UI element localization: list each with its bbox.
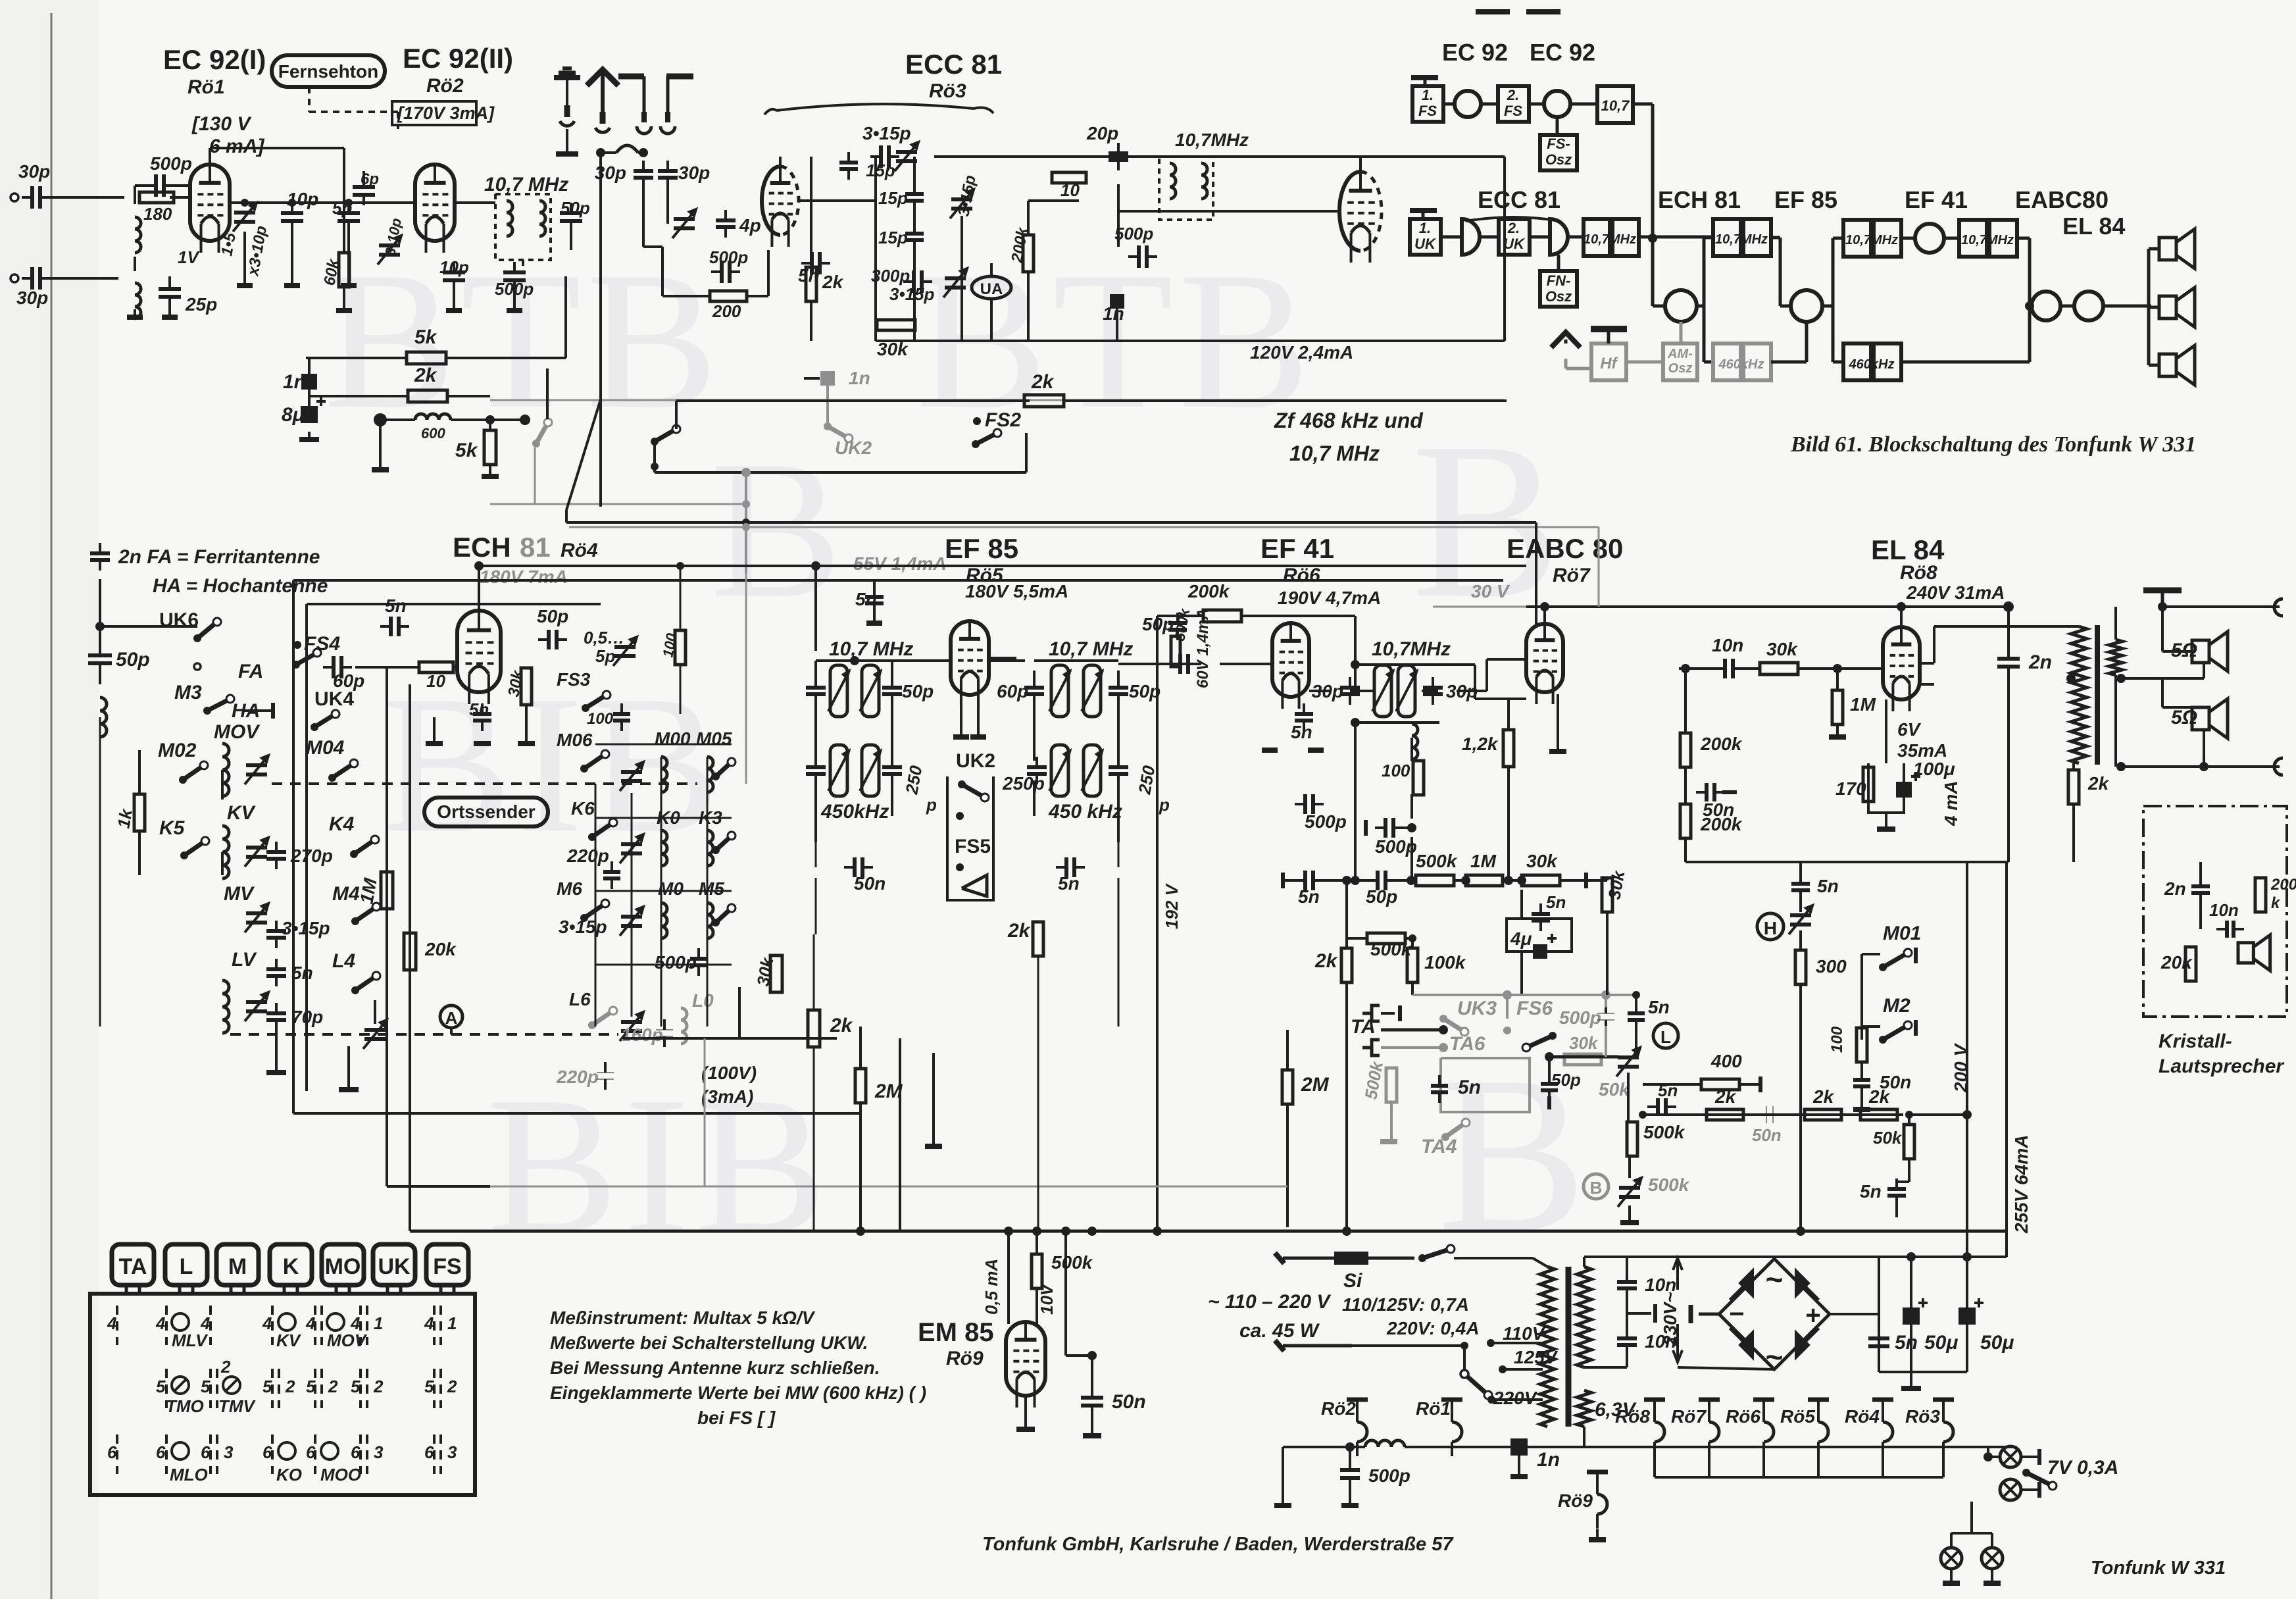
dial lamps switch [2026, 1473, 2053, 1486]
stub 5p EC92 [347, 228, 350, 283]
capacitor 50p left [88, 653, 112, 657]
svg-text:MV: MV [224, 883, 255, 905]
resistor 200k kristall [2255, 878, 2266, 912]
ECC81 osc wires [810, 157, 812, 267]
transformer core [2095, 625, 2100, 765]
Fernsehton box [272, 55, 385, 87]
svg-text:30p: 30p [678, 163, 710, 183]
svg-text:Tonfunk GmbH, Karlsruhe / Bade: Tonfunk GmbH, Karlsruhe / Baden, Werders… [982, 1534, 1454, 1555]
wires antenna banks [100, 625, 197, 628]
block 10,7MHz EF41 in [1843, 220, 1871, 257]
svg-text:AM-: AM- [1667, 347, 1693, 361]
bridge diode NW [1740, 1271, 1753, 1296]
svg-text:1V: 1V [178, 247, 200, 267]
mains selector switch [1464, 1374, 1488, 1395]
svg-text:k: k [2271, 894, 2281, 912]
svg-text:ca. 45 W: ca. 45 W [1239, 1320, 1320, 1342]
ECH81 section box inner [305, 604, 308, 1091]
resistor 100 M [1857, 1028, 1867, 1062]
jack box FS [426, 1244, 468, 1285]
dial lamp 1 [2000, 1446, 2021, 1467]
svg-text:EC 92(I): EC 92(I) [163, 44, 266, 75]
svg-text:+: + [1805, 1301, 1820, 1330]
bus horizontal 1803 black part [387, 1185, 490, 1188]
chain risers [1586, 879, 1607, 882]
svg-text:3•15p: 3•15p [889, 284, 934, 304]
capacitor 70p [266, 1011, 286, 1015]
block speaker 1 [2159, 238, 2176, 260]
wire osc switch column [595, 784, 597, 1027]
Kristall-Lautsprecher box [2143, 806, 2287, 1017]
wire 50p down [570, 228, 572, 250]
capacitor 50n gray row [1766, 1106, 1767, 1123]
svg-text:TA: TA [1351, 1016, 1376, 1038]
wire 2k EF85 to bus [813, 934, 815, 1010]
svg-text:10,7 MHz: 10,7 MHz [1049, 638, 1133, 660]
wire 2k second bottom [1037, 956, 1039, 1231]
switch gray EC92 out [536, 422, 548, 444]
bus horizontal 1803 gray part [490, 1186, 1287, 1188]
capacitor 50p can A [882, 686, 902, 690]
vertical 200V wire [1966, 862, 1968, 1231]
wire trimmer column x960 [631, 793, 633, 1017]
svg-text:460kHz: 460kHz [1718, 357, 1764, 372]
PSU top bus [1774, 1256, 2007, 1258]
dial lamp 4 [1982, 1548, 2003, 1569]
svg-text:KV: KV [276, 1331, 302, 1350]
svg-text:5n: 5n [469, 699, 489, 719]
wire 100 osc riser [680, 566, 682, 630]
svg-text:4p: 4p [739, 215, 761, 236]
svg-text:10,7MHz: 10,7MHz [1372, 638, 1451, 660]
svg-text:192 V: 192 V [1162, 882, 1182, 929]
block 10,7 [1597, 86, 1633, 123]
svg-text:L6: L6 [569, 989, 591, 1009]
svg-text:FS5: FS5 [955, 836, 991, 857]
svg-text:B: B [1590, 1178, 1603, 1198]
TA line black [1381, 1028, 1443, 1032]
svg-text:2k: 2k [1314, 950, 1338, 972]
svg-text:5k: 5k [455, 440, 478, 461]
svg-text:HA = Hochantenne: HA = Hochantenne [153, 575, 328, 597]
svg-text:Osz: Osz [1545, 151, 1572, 168]
capacitor 270p [266, 850, 286, 854]
svg-text:p: p [926, 795, 937, 815]
bus corner left outer [386, 980, 388, 1186]
svg-text:LV: LV [232, 949, 258, 971]
capacitor 50p ECH out [547, 630, 551, 649]
osc group connector 4 [595, 964, 732, 966]
svg-text:400: 400 [1710, 1051, 1742, 1071]
wire bus 609 [675, 401, 678, 429]
resistor 500k AVC [1367, 933, 1405, 944]
svg-text:EABC 80: EABC 80 [1507, 533, 1623, 564]
input terminal upper [11, 193, 18, 201]
switch TA4 gray [1445, 1123, 1466, 1137]
speaker terminal T [2143, 588, 2182, 594]
svg-text:1M: 1M [1470, 851, 1497, 871]
top bus 860 [816, 565, 1526, 567]
svg-text:Osz: Osz [1668, 361, 1693, 376]
block ECH81 10,7MHz [1713, 219, 1741, 256]
svg-text:Rö9: Rö9 [946, 1348, 984, 1369]
block 2.FS [1498, 86, 1529, 122]
svg-text:2k: 2k [1007, 920, 1031, 942]
svg-text:50p: 50p [561, 198, 590, 218]
svg-text:2M: 2M [1301, 1074, 1330, 1096]
heater Ro3 [1933, 1398, 1954, 1402]
svg-text:K: K [283, 1254, 299, 1279]
svg-text:100: 100 [1828, 1026, 1846, 1053]
svg-text:3•15p: 3•15p [559, 917, 607, 937]
switch FS6 lever black [1526, 1036, 1553, 1048]
bus mid gray 801 [569, 526, 1599, 528]
coil LV group [222, 980, 229, 994]
electrolytic 50u 2 [1959, 1307, 1976, 1325]
ground terminal [372, 467, 389, 472]
svg-text:5: 5 [201, 1377, 211, 1396]
capacitor can A left [806, 686, 826, 690]
capacitor 2n anode [1997, 657, 2020, 661]
resistor 10 [1052, 172, 1086, 183]
block halfcircle a [1462, 219, 1480, 255]
svg-text:EM 85: EM 85 [918, 1318, 994, 1347]
svg-text:10: 10 [1061, 180, 1080, 200]
PSU bottom bus [1879, 1371, 1967, 1373]
choke PSU [1365, 1440, 1378, 1447]
tube EL84 anode wire dot [1897, 602, 1906, 611]
capacitor 30p EF41 out [1340, 686, 1360, 690]
svg-text:FS: FS [1418, 103, 1437, 119]
svg-text:100: 100 [1382, 761, 1410, 780]
svg-text:2n FA = Ferritantenne: 2n FA = Ferritantenne [118, 546, 320, 568]
svg-text:200: 200 [2270, 876, 2296, 894]
svg-text:KV: KV [227, 802, 257, 824]
osc box vertical [738, 987, 741, 1038]
svg-text:4: 4 [424, 1313, 434, 1333]
ECH81 plate riser dots [811, 561, 820, 571]
wire tuning cap [374, 1000, 376, 1024]
svg-text:100k: 100k [1424, 952, 1466, 973]
capacitor 50n M [1853, 1078, 1870, 1082]
input coil upper [135, 217, 141, 229]
svg-text:10,7MHz: 10,7MHz [1584, 232, 1636, 247]
svg-text:ECH: ECH [453, 532, 511, 563]
svg-text:180V 7mA: 180V 7mA [480, 567, 568, 587]
svg-text:EL 84: EL 84 [1871, 534, 1945, 565]
svg-text:6: 6 [424, 1442, 434, 1462]
block halfcircle b [1550, 219, 1568, 255]
gray bus down [745, 472, 747, 572]
svg-text:50p: 50p [1366, 886, 1397, 907]
capacitor 250p can B2 right [1109, 765, 1128, 769]
osc coil pair 1 [621, 770, 642, 774]
svg-text:A: A [445, 1008, 458, 1028]
svg-text:3: 3 [374, 1442, 384, 1462]
svg-text:6V: 6V [1897, 719, 1922, 740]
jack box legs [125, 1285, 128, 1294]
heater Ro6 [1753, 1398, 1774, 1402]
svg-text:500p: 500p [1114, 224, 1153, 243]
svg-text:50k: 50k [1873, 1128, 1903, 1148]
jack box M [216, 1244, 259, 1285]
svg-text:300: 300 [1816, 956, 1847, 977]
svg-text:Si: Si [1343, 1270, 1362, 1292]
svg-text:FA: FA [238, 661, 263, 682]
svg-text:4μ: 4μ [1510, 928, 1532, 949]
block speaker 2 [2159, 296, 2176, 318]
page mark top [1476, 9, 1510, 14]
svg-text:M01: M01 [1883, 923, 1921, 944]
svg-text:[130 V: [130 V [191, 113, 252, 135]
wire x1240 can A bottom [815, 842, 817, 867]
svg-text:4: 4 [155, 1313, 166, 1333]
capacitor 50n EM85 [1081, 1396, 1103, 1400]
svg-text:KO: KO [276, 1465, 302, 1485]
svg-text:M05: M05 [696, 728, 732, 749]
wire anode to primary [1920, 662, 1934, 665]
svg-text:5n: 5n [1291, 722, 1312, 742]
riser 4u box [1520, 890, 1523, 919]
svg-text:10n: 10n [1712, 635, 1743, 655]
svg-text:2.: 2. [1507, 87, 1519, 103]
svg-text:6: 6 [107, 1442, 117, 1462]
svg-text:TA6: TA6 [1449, 1033, 1485, 1055]
svg-text:FS-: FS- [1547, 136, 1570, 152]
svg-text:Rö1: Rö1 [187, 76, 225, 98]
resistor 2k fb [2068, 770, 2079, 804]
transformer heater winding [1577, 1390, 1591, 1427]
svg-text:5n: 5n [1546, 892, 1566, 912]
can risers to 860 [814, 566, 817, 651]
pot 500k gray B [1619, 1186, 1640, 1190]
bridge left terminal [1699, 1313, 1719, 1316]
block junction [1648, 234, 1657, 243]
osc gray vertical [704, 1038, 706, 1186]
tube EL84 [1883, 627, 1920, 699]
svg-text:1: 1 [374, 1313, 383, 1333]
svg-text:Rö2: Rö2 [1321, 1398, 1356, 1419]
svg-text:30k: 30k [1526, 851, 1558, 871]
wire osc column x1005 [661, 757, 662, 1027]
capacitor 25p [159, 287, 181, 291]
capacitor 5n H [1791, 882, 1810, 886]
diagonal wire left [566, 399, 601, 510]
svg-text:UK: UK [1503, 236, 1526, 252]
block Hf gray [1591, 343, 1626, 380]
wire M01 M2 [1860, 954, 1863, 1040]
resistor 100k [1407, 948, 1418, 982]
resistor 5k feedback [407, 352, 446, 364]
wire x152 extension [99, 717, 101, 1027]
ECH81 section box outer [292, 580, 295, 1113]
resistor 170 [1863, 767, 1874, 801]
dipole terminal 1 [618, 74, 644, 80]
svg-text:6: 6 [262, 1442, 272, 1462]
svg-text:L4: L4 [332, 950, 355, 972]
block wire 10,7 down [1633, 103, 1653, 106]
tube EABC80 [1526, 624, 1563, 692]
wire osc column x1075 [707, 757, 709, 1027]
svg-text:Tonfunk W 331: Tonfunk W 331 [2091, 1558, 2226, 1579]
tube EF41 [1272, 623, 1309, 697]
cap 5n 55V [865, 595, 884, 599]
svg-text:5n: 5n [855, 589, 877, 609]
transformer core bar [1566, 1267, 1572, 1427]
transformer primary winding [1540, 1267, 1555, 1427]
block AM-Osz gray [1663, 343, 1697, 380]
heater Ro7 [1699, 1398, 1720, 1402]
triode ECC81 a [762, 166, 780, 235]
capacitor 50p output [560, 211, 582, 215]
block EF41 top branch [1822, 305, 1833, 308]
resistor 200 [710, 291, 747, 301]
capacitor 50p pot [1541, 1082, 1558, 1086]
svg-text:50n: 50n [854, 873, 886, 894]
IF can B top [1051, 665, 1068, 717]
resistor 500k EM85 [1032, 1254, 1042, 1288]
transformer secondary HV [1577, 1267, 1591, 1367]
resistor 500k top [1171, 636, 1180, 667]
EF41 plate to 200k [1241, 615, 1355, 617]
svg-text:500p: 500p [150, 153, 192, 174]
svg-text:10: 10 [426, 671, 445, 691]
svg-text:Osz: Osz [1545, 288, 1572, 305]
svg-text:Rö8: Rö8 [1615, 1406, 1650, 1427]
capacitor 60p [1024, 686, 1044, 690]
capacitor 10p grid [281, 211, 303, 215]
svg-text:Rö1: Rö1 [1416, 1398, 1451, 1419]
svg-text:M3: M3 [174, 682, 202, 703]
coupling capacitor 30p lower [30, 267, 34, 290]
svg-text:30k: 30k [877, 339, 909, 359]
svg-text:Fernsehton: Fernsehton [278, 61, 378, 82]
capacitor 5n AVC [1532, 912, 1550, 916]
svg-text:M: M [228, 1254, 247, 1279]
svg-text:MLV: MLV [172, 1331, 209, 1350]
mains switch [1422, 1249, 1451, 1258]
svg-text:2k: 2k [414, 365, 437, 386]
dial lamp 2 [2000, 1479, 2021, 1500]
capacitor 500p PSU [1340, 1468, 1360, 1472]
jack box MO [322, 1244, 364, 1285]
svg-text:200: 200 [712, 301, 741, 321]
svg-text:10,7 MHz: 10,7 MHz [1289, 442, 1380, 465]
capacitor 50n mid [1705, 783, 1709, 801]
svg-text:2k: 2k [1031, 371, 1055, 393]
svg-text:EF 85: EF 85 [945, 533, 1018, 564]
block antenna FS [1411, 75, 1438, 80]
output secondary winding [2109, 640, 2122, 675]
resistor 2k EF85 [808, 1010, 820, 1047]
svg-text:100: 100 [587, 710, 614, 728]
heater Ro1 left [1441, 1398, 1462, 1402]
svg-text:200k: 200k [1700, 734, 1743, 754]
svg-text:500k: 500k [1416, 851, 1458, 871]
EM85 wires [1036, 1288, 1038, 1324]
svg-text:2k: 2k [1714, 1086, 1737, 1107]
svg-text:160p: 160p [621, 1025, 663, 1045]
wire anode1 right [210, 147, 344, 149]
junction dots bus [856, 1227, 865, 1236]
svg-text:6: 6 [201, 1442, 211, 1462]
svg-text:M00: M00 [655, 728, 691, 749]
svg-text:220p: 220p [566, 846, 609, 866]
svg-text:3: 3 [224, 1442, 234, 1462]
svg-text:Kristall-: Kristall- [2159, 1030, 2232, 1052]
resistor 2k osc [806, 267, 816, 301]
capacitor 100u [1896, 782, 1912, 798]
svg-text:Rö3: Rö3 [1905, 1406, 1940, 1427]
svg-text:ECH 81: ECH 81 [1658, 186, 1741, 213]
svg-text:4: 4 [200, 1313, 211, 1333]
svg-text:MO: MO [325, 1254, 361, 1279]
cathode box EL84 [1868, 763, 1904, 813]
svg-text:1.: 1. [1419, 220, 1431, 236]
bridge diode NE [1796, 1271, 1809, 1296]
gray bus TA [1412, 994, 1638, 996]
svg-text:20k: 20k [424, 939, 457, 959]
svg-text:4: 4 [350, 1313, 361, 1333]
oval UA [972, 276, 1011, 299]
svg-text:5n: 5n [1648, 997, 1670, 1017]
speaker tap wire [2121, 677, 2204, 680]
svg-text:FS: FS [1504, 103, 1522, 119]
capacitor 250p can B2 left [1027, 765, 1047, 769]
svg-text:UK6: UK6 [159, 609, 199, 631]
B circle [1584, 1174, 1609, 1199]
kristall wires [2199, 862, 2202, 880]
svg-text:UK: UK [378, 1254, 411, 1279]
svg-text:170: 170 [1835, 778, 1866, 799]
contact table [90, 1294, 475, 1495]
block 460kHz gray ECH [1713, 343, 1741, 380]
capacitor 2n antenna [90, 551, 110, 555]
bus 794 risers [742, 519, 750, 526]
wire coil column [134, 186, 136, 204]
capacitor 5n cathode [473, 712, 491, 716]
cap input EF41 [1178, 654, 1182, 674]
svg-text:Rö6: Rö6 [1283, 565, 1320, 586]
svg-text:1: 1 [447, 1313, 457, 1333]
svg-text:190V 4,7mA: 190V 4,7mA [1278, 588, 1381, 608]
svg-text:TA: TA [119, 1254, 147, 1279]
svg-text:60V 1,4mA: 60V 1,4mA [1194, 609, 1212, 688]
resistor 200k vertical [1023, 235, 1034, 272]
capacitor 60p [332, 656, 336, 678]
block 10,7MHz double [1584, 219, 1610, 256]
resistor 30k band [770, 955, 782, 992]
osc group connector 3 [595, 890, 732, 892]
capacitor 5n row [1887, 1187, 1906, 1191]
svg-text:5n: 5n [1658, 1080, 1678, 1100]
wire secondary top [1583, 1257, 1585, 1267]
svg-text:450 kHz: 450 kHz [1048, 801, 1122, 823]
svg-text:5n: 5n [1860, 1181, 1882, 1202]
svg-text:Rö4: Rö4 [1845, 1406, 1880, 1427]
dial lamp 3 [1941, 1548, 1962, 1569]
capacitor 500p det [1384, 818, 1387, 838]
input terminal lower [11, 274, 18, 282]
svg-text:4 mA: 4 mA [1941, 781, 1961, 826]
svg-text:2: 2 [285, 1377, 295, 1396]
svg-text:0,5 mA: 0,5 mA [982, 1259, 1001, 1315]
brace ECC81 [764, 104, 993, 114]
svg-text:500k: 500k [1643, 1122, 1685, 1142]
svg-text:5: 5 [262, 1377, 272, 1396]
svg-text:TMV: TMV [218, 1396, 257, 1416]
svg-text:10,7MHz: 10,7MHz [1715, 232, 1768, 247]
